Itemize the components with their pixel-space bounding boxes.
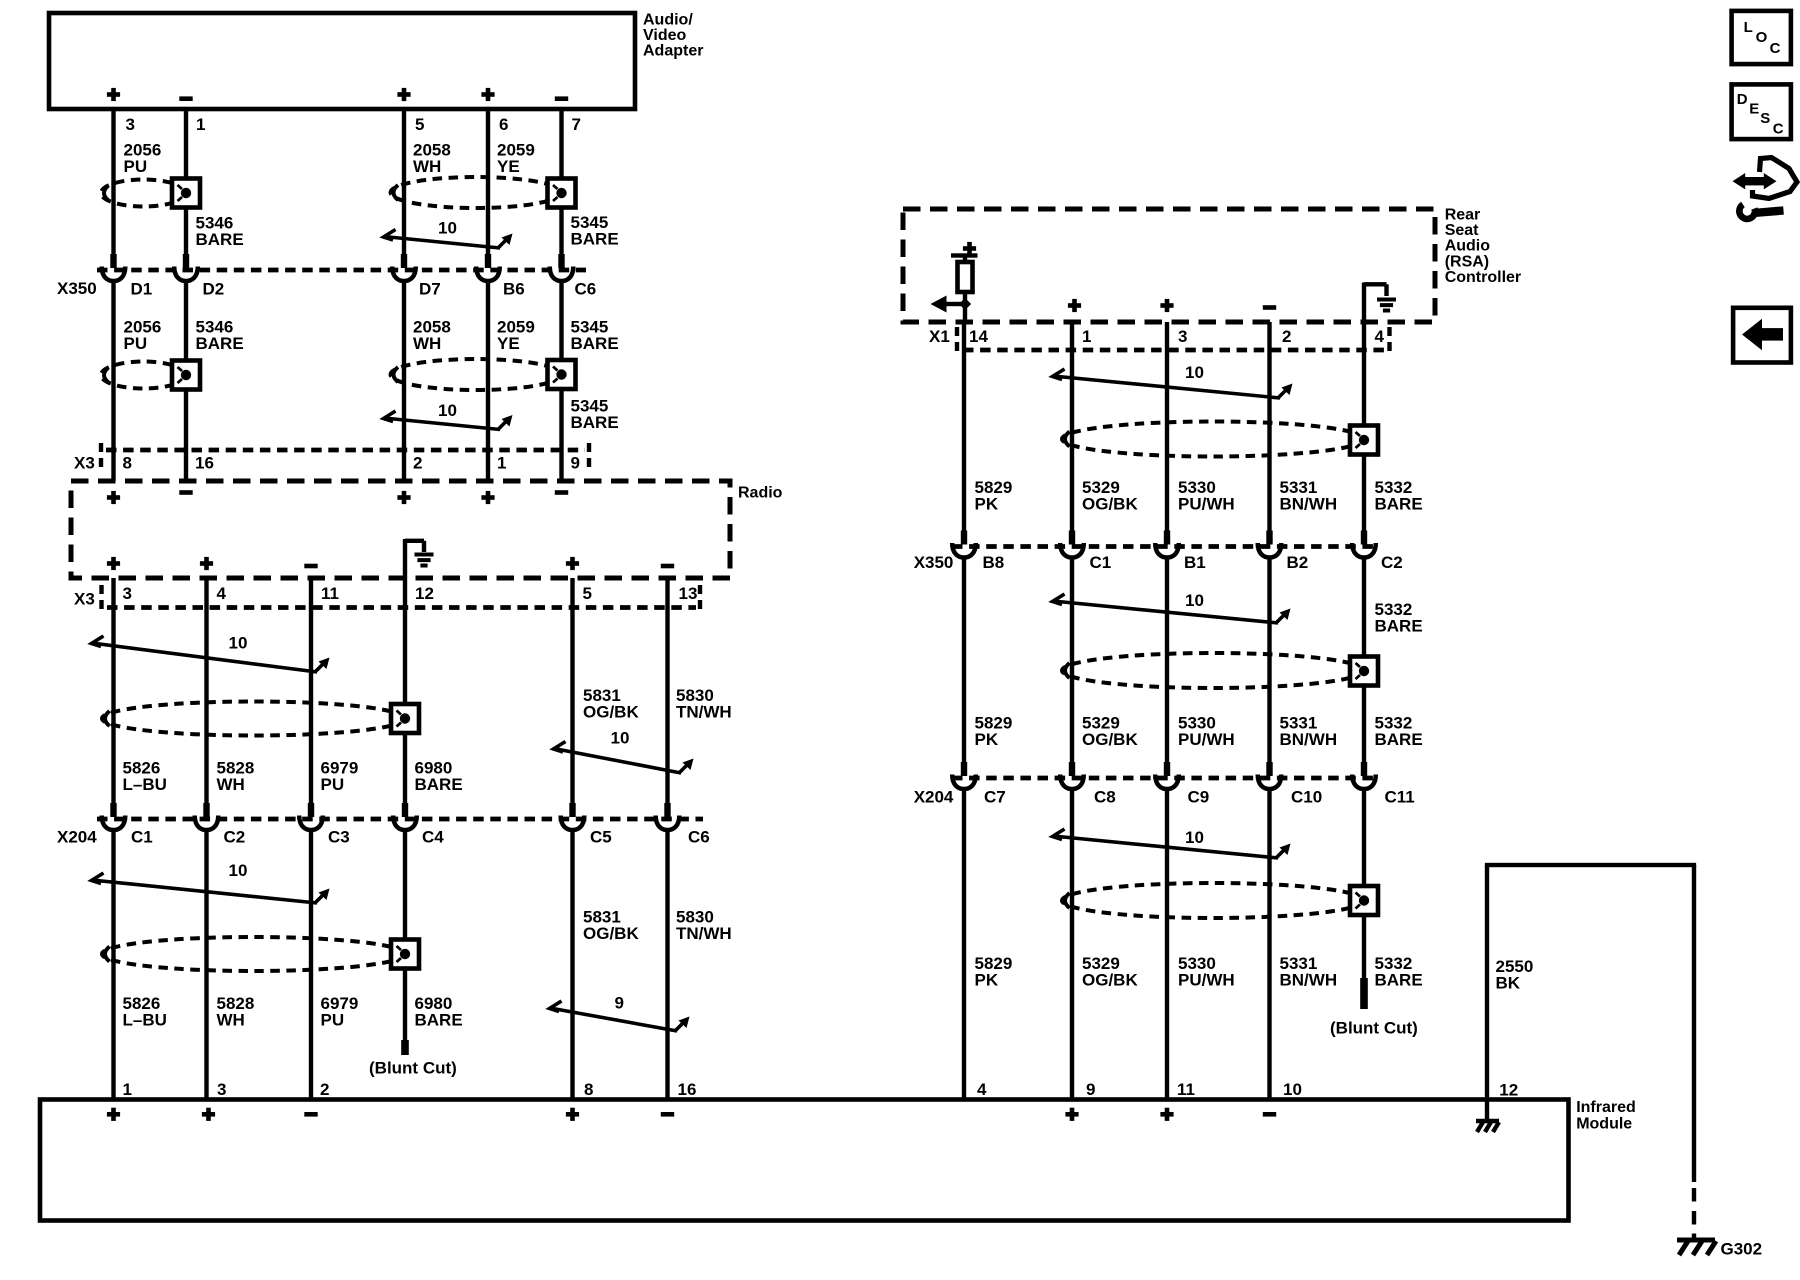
connector X3 left boundary tick bbox=[99, 443, 103, 470]
svg-text:OG/BK: OG/BK bbox=[1082, 730, 1138, 749]
polarity + module pin 3 bbox=[202, 1108, 215, 1121]
wire 5829 PK (X1-14 to X350 B8) bbox=[962, 322, 966, 532]
svg-text:BARE: BARE bbox=[196, 334, 244, 353]
svg-text:PU/WH: PU/WH bbox=[1178, 495, 1235, 514]
svg-text:Controller: Controller bbox=[1445, 269, 1521, 286]
svg-text:(Blunt Cut): (Blunt Cut) bbox=[369, 1059, 457, 1078]
svg-text:PU/WH: PU/WH bbox=[1178, 971, 1235, 990]
wire 5331 BN/WH (X204 C10 to module 10) bbox=[1267, 788, 1271, 1100]
svg-text:B8: B8 bbox=[983, 553, 1005, 572]
svg-text:PK: PK bbox=[975, 730, 999, 749]
svg-text:C2: C2 bbox=[1381, 553, 1403, 572]
svg-text:X204: X204 bbox=[914, 788, 954, 807]
connector cup X350 (left) pin D7 bbox=[392, 254, 416, 281]
wire 2058 WH (X350 D7 to Radio X3-2) bbox=[402, 280, 406, 481]
svg-text:3: 3 bbox=[126, 115, 135, 134]
connector cup X204 (left) pin C4 bbox=[393, 803, 417, 830]
svg-text:2: 2 bbox=[413, 454, 422, 473]
wire 5329 OG/BK (X1-1 to X350 C1) bbox=[1070, 322, 1074, 532]
svg-text:BN/WH: BN/WH bbox=[1280, 495, 1338, 514]
polarity + at A/V pin 5 bbox=[397, 88, 410, 101]
module box: Audio/Video Adapter bbox=[49, 13, 635, 109]
polarity - module pin 2 bbox=[304, 1112, 317, 1117]
wire 5331 BN/WH (X1-2 to X350 B2) bbox=[1267, 322, 1271, 532]
connector cup X350 (right) pin C2 bbox=[1352, 531, 1376, 558]
icon box DESC bbox=[1732, 84, 1791, 139]
svg-text:C: C bbox=[1773, 121, 1784, 138]
svg-text:3: 3 bbox=[217, 1080, 226, 1099]
shield drain symbol on 6980 BARE bbox=[391, 704, 419, 733]
wire 5830 TN/WH (X204 C6 to module 16) bbox=[665, 829, 669, 1100]
twisted-wire arrow '10' bbox=[384, 411, 510, 430]
connector row X1 dashed line bbox=[963, 348, 1385, 353]
svg-text:14: 14 bbox=[969, 327, 988, 346]
svg-text:PU/WH: PU/WH bbox=[1178, 730, 1235, 749]
svg-text:12: 12 bbox=[415, 584, 434, 603]
wire 5329 OG/BK (X350 C1 to X204 C8) bbox=[1070, 557, 1074, 764]
wire 5332 BARE (X350 C2 to X204 C11) bbox=[1362, 557, 1366, 764]
connector cup X204 (right) pin C9 bbox=[1155, 762, 1179, 789]
wire RSA internal (resistor to pin 14) bbox=[963, 292, 967, 322]
svg-text:11: 11 bbox=[1177, 1080, 1195, 1099]
polarity + at A/V pin 3 bbox=[107, 88, 120, 101]
svg-text:TN/WH: TN/WH bbox=[676, 703, 732, 722]
polarity + module pin 11 bbox=[1160, 1108, 1173, 1121]
wire 5831 OG/BK (X204 C5 to module 8) bbox=[570, 829, 574, 1100]
svg-text:8: 8 bbox=[123, 454, 132, 473]
svg-text:BN/WH: BN/WH bbox=[1280, 730, 1338, 749]
polarity - Radio X3-13 bbox=[661, 564, 674, 569]
wire 2550 BK dashed segment to G302 bbox=[1692, 1188, 1696, 1202]
module box: Radio (dashed) bbox=[71, 481, 730, 578]
connector cup X204 (left) pin C3 bbox=[299, 803, 323, 830]
svg-text:BARE: BARE bbox=[1375, 617, 1423, 636]
polarity + at A/V pin 6 bbox=[481, 88, 494, 101]
polarity + RSA pin 1 bbox=[1068, 299, 1081, 312]
wire 5331 BN/WH (X350 B2 to X204 C10) bbox=[1267, 557, 1271, 764]
connector cup X350 (left) pin D1 bbox=[102, 254, 126, 281]
wire 5828 WH (Radio X3-4 to X204 C2) bbox=[204, 578, 208, 804]
svg-text:Radio: Radio bbox=[738, 484, 783, 501]
svg-text:B6: B6 bbox=[503, 280, 525, 299]
polarity + Radio X3-2 bbox=[397, 491, 410, 504]
svg-text:6: 6 bbox=[499, 115, 508, 134]
svg-text:4: 4 bbox=[1375, 327, 1385, 346]
wire 6980 BARE (X204 C4 to blunt cut) bbox=[403, 829, 407, 1040]
connector cup X204 (left) pin C1 bbox=[102, 803, 126, 830]
svg-text:Rear: Rear bbox=[1445, 206, 1481, 223]
svg-text:10: 10 bbox=[1283, 1080, 1302, 1099]
ground symbol inside Radio (pin 12) bbox=[403, 539, 407, 578]
wire 5345 BARE (X350 C6 to Radio X3-9) bbox=[559, 280, 563, 481]
icon box LOC bbox=[1732, 11, 1791, 64]
chassis ground symbol inside module (pin 12) bbox=[1485, 1100, 1489, 1120]
icon arrows and wrench bbox=[1753, 158, 1798, 199]
svg-text:X350: X350 bbox=[57, 279, 97, 298]
shield drain symbol lower on 6980 BARE bbox=[391, 940, 419, 969]
svg-text:O: O bbox=[1756, 29, 1768, 46]
svg-text:10: 10 bbox=[1185, 363, 1204, 382]
svg-text:Module: Module bbox=[1576, 1115, 1632, 1132]
svg-text:L–BU: L–BU bbox=[123, 1011, 167, 1030]
svg-text:C5: C5 bbox=[590, 828, 612, 847]
svg-text:7: 7 bbox=[572, 115, 581, 134]
svg-text:5: 5 bbox=[415, 115, 424, 134]
wire 5345 BARE (A/V 7 to X350 C6) bbox=[559, 109, 563, 255]
svg-text:WH: WH bbox=[217, 1011, 245, 1030]
svg-text:13: 13 bbox=[679, 584, 698, 603]
svg-text:D: D bbox=[1737, 91, 1748, 108]
connector X1 left boundary tick bbox=[955, 327, 959, 351]
twisted-wire arrow '10' bbox=[1053, 369, 1290, 398]
connector row X3 (top) dashed line bbox=[106, 448, 585, 453]
wire 5330 PU/WH (X204 C9 to module 11) bbox=[1165, 788, 1169, 1100]
shield drain symbol #3 on 5332 BARE bbox=[1350, 886, 1378, 915]
twisted trio loop (2058/2059/5345) bbox=[391, 177, 562, 208]
svg-text:L–BU: L–BU bbox=[123, 775, 167, 794]
connector cup X350 (left) pin C6 bbox=[550, 254, 574, 281]
svg-text:BARE: BARE bbox=[415, 1011, 463, 1030]
svg-text:2: 2 bbox=[1282, 327, 1291, 346]
connector row X204 (left) dashed line bbox=[97, 817, 703, 822]
ground symbol inside RSA (pin 4) bbox=[1362, 283, 1366, 323]
wire 5329 OG/BK (X204 C8 to module 9) bbox=[1070, 788, 1074, 1100]
connector cup X350 (left) pin B6 bbox=[476, 254, 500, 281]
svg-text:C2: C2 bbox=[224, 828, 246, 847]
twisted-wire arrow '9' bbox=[550, 1001, 687, 1031]
svg-text:PU: PU bbox=[124, 157, 148, 176]
svg-text:9: 9 bbox=[1086, 1080, 1095, 1099]
svg-text:X3: X3 bbox=[74, 453, 95, 472]
connector cup X204 (right) pin C7 bbox=[952, 762, 976, 789]
polarity + RSA pin 3 bbox=[1160, 299, 1173, 312]
svg-text:PU: PU bbox=[321, 1011, 345, 1030]
svg-text:X350: X350 bbox=[914, 553, 954, 572]
polarity + Radio X3-1 bbox=[481, 491, 494, 504]
polarity + Radio X3-3 bbox=[107, 557, 120, 570]
svg-text:YE: YE bbox=[497, 157, 520, 176]
svg-text:PK: PK bbox=[975, 495, 999, 514]
svg-text:PU: PU bbox=[124, 334, 148, 353]
signal arrow (to left) inside RSA bbox=[943, 302, 965, 306]
svg-text:1: 1 bbox=[497, 454, 506, 473]
svg-text:BARE: BARE bbox=[1375, 971, 1423, 990]
polarity + Radio X3-4 bbox=[200, 557, 213, 570]
twisted-wire arrow '10' bbox=[384, 230, 510, 249]
svg-text:BARE: BARE bbox=[415, 775, 463, 794]
polarity - module pin 16 bbox=[661, 1112, 674, 1117]
connector cup X350 (right) pin C1 bbox=[1060, 531, 1084, 558]
blunt cut stub on 6980 BARE bbox=[401, 1040, 409, 1055]
polarity + module pin 9 bbox=[1065, 1108, 1078, 1121]
wire 5831 OG/BK (Radio X3-5 to X204 C5) bbox=[570, 578, 574, 804]
resistor (pull-up) inside RSA on pin 14 bbox=[963, 242, 976, 255]
polarity - Radio X3-16 bbox=[179, 490, 192, 495]
icon box back-arrow bbox=[1733, 308, 1791, 363]
connector cup X204 (right) pin C10 bbox=[1258, 762, 1282, 789]
connector cup X204 (left) pin C5 bbox=[561, 803, 585, 830]
connector cup X204 (right) pin C11 bbox=[1352, 762, 1376, 789]
shield drain symbol row2 on 5345 BARE bbox=[548, 360, 576, 389]
wire 5830 TN/WH (Radio X3-13 to X204 C6) bbox=[665, 578, 669, 804]
svg-text:12: 12 bbox=[1499, 1081, 1518, 1100]
svg-text:E: E bbox=[1749, 101, 1759, 118]
connector cup X204 (left) pin C2 bbox=[195, 803, 219, 830]
polarity + module pin 8 bbox=[566, 1108, 579, 1121]
twisted-wire arrow '10' bbox=[92, 636, 327, 672]
twisted pair loop row2 (2056/5346) bbox=[101, 362, 186, 389]
twisted pair loop (2056/5346) bbox=[101, 180, 186, 207]
twisted loop right #2 bbox=[1062, 653, 1364, 688]
svg-text:X1: X1 bbox=[929, 327, 950, 346]
svg-text:TN/WH: TN/WH bbox=[676, 924, 732, 943]
wire 2059 YE (A/V 6 to X350 B6) bbox=[486, 109, 490, 255]
svg-text:(Blunt Cut): (Blunt Cut) bbox=[1330, 1019, 1418, 1038]
connector row X350 (right) dashed line bbox=[952, 544, 1378, 549]
svg-text:1: 1 bbox=[196, 115, 205, 134]
polarity + module pin 1 bbox=[107, 1108, 120, 1121]
wire 5826 L-BU (X204 C1 to module 1) bbox=[111, 829, 115, 1100]
svg-text:C6: C6 bbox=[575, 280, 597, 299]
module box: Infrared Module bbox=[40, 1100, 1569, 1221]
wire 5330 PU/WH (X1-3 to X350 B1) bbox=[1165, 322, 1169, 532]
twisted-wire arrow '10' bbox=[1053, 829, 1288, 858]
shield drain symbol row2 on 5346 BARE bbox=[172, 361, 200, 390]
wire 2056 PU (X350 D1 to Radio X3-8) bbox=[111, 280, 115, 481]
svg-text:10: 10 bbox=[438, 401, 457, 420]
svg-text:4: 4 bbox=[977, 1080, 987, 1099]
polarity - Radio X3-11 bbox=[304, 564, 317, 569]
polarity - at A/V pin 1 bbox=[179, 96, 192, 101]
svg-text:9: 9 bbox=[571, 454, 580, 473]
svg-text:5: 5 bbox=[583, 584, 592, 603]
wire 5346 BARE (A/V 1 to X350 D2) bbox=[184, 109, 188, 255]
svg-text:OG/BK: OG/BK bbox=[1082, 495, 1138, 514]
svg-text:WH: WH bbox=[413, 157, 441, 176]
svg-text:9: 9 bbox=[615, 994, 624, 1013]
polarity - at A/V pin 7 bbox=[555, 96, 568, 101]
svg-text:S: S bbox=[1760, 110, 1770, 127]
connector row X3 (bottom) dashed line bbox=[107, 605, 696, 610]
shield drain symbol #2 on 5332 BARE bbox=[1350, 657, 1378, 686]
svg-text:3: 3 bbox=[1178, 327, 1187, 346]
svg-text:BK: BK bbox=[1496, 974, 1521, 993]
connector cup X204 (left) pin C6 bbox=[656, 803, 680, 830]
connector X3 bottom right boundary tick bbox=[698, 585, 702, 612]
wire 2056 PU (A/V 3 to X350 D1) bbox=[111, 109, 115, 255]
svg-text:B1: B1 bbox=[1184, 553, 1206, 572]
svg-text:C1: C1 bbox=[1090, 553, 1112, 572]
polarity - RSA pin 2 bbox=[1263, 305, 1276, 310]
twisted-wire arrow '10' bbox=[554, 742, 691, 774]
wire 2059 YE (X350 B6 to Radio X3-1) bbox=[486, 280, 490, 481]
svg-text:BARE: BARE bbox=[196, 230, 244, 249]
blunt cut stub on 5332 BARE bbox=[1360, 978, 1368, 1009]
polarity + Radio X3-8 bbox=[107, 491, 120, 504]
polarity - Radio X3-9 bbox=[555, 490, 568, 495]
wire 5332 BARE (X1-4 to X350 C2) bbox=[1362, 322, 1366, 532]
svg-text:BARE: BARE bbox=[571, 413, 619, 432]
svg-text:Audio: Audio bbox=[1445, 238, 1491, 255]
svg-text:Seat: Seat bbox=[1445, 222, 1479, 239]
twisted loop (5826/5828/6979/6980) bbox=[102, 702, 405, 736]
svg-text:X3: X3 bbox=[74, 590, 95, 609]
connector X3 bottom left boundary tick bbox=[99, 585, 103, 612]
twisted loop right #1 bbox=[1062, 422, 1364, 457]
connector cup X350 (right) pin B1 bbox=[1155, 531, 1179, 558]
svg-text:B2: B2 bbox=[1287, 553, 1309, 572]
polarity + Radio X3-5 bbox=[566, 557, 579, 570]
svg-text:3: 3 bbox=[123, 584, 132, 603]
wire 5826 L-BU (Radio X3-3 to X204 C1) bbox=[111, 578, 115, 804]
wire 2058 WH (A/V 5 to X350 D7) bbox=[402, 109, 406, 255]
wire 5332 BARE (X204 C11 to blunt cut) bbox=[1362, 788, 1366, 978]
svg-text:D7: D7 bbox=[419, 280, 441, 299]
ground G302 chassis symbol bbox=[1677, 1240, 1716, 1255]
wire 5828 WH (X204 C2 to module 3) bbox=[204, 829, 208, 1100]
svg-text:BARE: BARE bbox=[1375, 730, 1423, 749]
svg-text:10: 10 bbox=[229, 634, 248, 653]
shield drain symbol on 5346 BARE bbox=[172, 179, 200, 208]
svg-text:10: 10 bbox=[438, 219, 457, 238]
svg-text:G302: G302 bbox=[1721, 1240, 1763, 1259]
svg-text:C6: C6 bbox=[688, 828, 710, 847]
wire 5829 PK (X350 B8 to X204 C7) bbox=[962, 557, 966, 764]
svg-text:OG/BK: OG/BK bbox=[583, 924, 639, 943]
twisted loop lower (5826/5828/6979/6980) bbox=[102, 937, 405, 971]
shield drain symbol on 5345 BARE bbox=[548, 179, 576, 208]
wire 6979 PU (X204 C3 to module 2) bbox=[309, 829, 313, 1100]
wire 5346 BARE (X350 D2 to Radio X3-16) bbox=[184, 280, 188, 481]
twisted loop right #3 bbox=[1062, 883, 1364, 918]
svg-text:Video: Video bbox=[643, 27, 687, 44]
svg-text:C9: C9 bbox=[1188, 788, 1210, 807]
svg-text:YE: YE bbox=[497, 334, 520, 353]
svg-text:OG/BK: OG/BK bbox=[583, 703, 639, 722]
svg-text:OG/BK: OG/BK bbox=[1082, 971, 1138, 990]
wire 6979 PU (Radio X3-11 to X204 C3) bbox=[309, 578, 313, 804]
connector X3 right boundary tick bbox=[587, 443, 591, 470]
svg-text:2: 2 bbox=[320, 1080, 329, 1099]
svg-text:C3: C3 bbox=[328, 828, 350, 847]
svg-text:10: 10 bbox=[1185, 828, 1204, 847]
connector row X350 (left) dashed line bbox=[97, 268, 586, 273]
svg-text:10: 10 bbox=[1185, 591, 1204, 610]
connector row X204 (right) dashed line bbox=[952, 776, 1378, 781]
wire 6980 BARE (Radio X3-12 to X204 C4) bbox=[403, 578, 407, 804]
polarity - module pin 10 bbox=[1263, 1112, 1276, 1117]
svg-text:C4: C4 bbox=[422, 828, 444, 847]
svg-text:C8: C8 bbox=[1094, 788, 1116, 807]
svg-text:D1: D1 bbox=[131, 280, 153, 299]
svg-text:8: 8 bbox=[584, 1080, 593, 1099]
svg-text:X204: X204 bbox=[57, 828, 97, 847]
connector X1 right boundary tick bbox=[1387, 327, 1391, 351]
connector cup X350 (right) pin B8 bbox=[952, 531, 976, 558]
connector cup X350 (left) pin D2 bbox=[174, 254, 198, 281]
svg-text:C1: C1 bbox=[131, 828, 153, 847]
svg-text:1: 1 bbox=[1082, 327, 1091, 346]
svg-text:C10: C10 bbox=[1291, 788, 1322, 807]
svg-text:16: 16 bbox=[195, 454, 214, 473]
twisted trio loop row2 (2058/2059/5345) bbox=[391, 359, 562, 390]
wire 5829 PK (X204 C7 to module 4) bbox=[962, 788, 966, 1100]
svg-text:Adapter: Adapter bbox=[643, 42, 703, 59]
svg-text:11: 11 bbox=[321, 584, 339, 603]
svg-text:BARE: BARE bbox=[1375, 495, 1423, 514]
svg-text:16: 16 bbox=[678, 1080, 697, 1099]
svg-text:L: L bbox=[1744, 19, 1753, 36]
connector cup X350 (right) pin B2 bbox=[1258, 531, 1282, 558]
svg-text:C7: C7 bbox=[984, 788, 1006, 807]
svg-text:Audio/: Audio/ bbox=[643, 11, 693, 28]
svg-text:WH: WH bbox=[217, 775, 245, 794]
svg-text:D2: D2 bbox=[203, 280, 225, 299]
module box: Rear Seat Audio (RSA) Controller (dashed) bbox=[903, 209, 1435, 322]
svg-text:1: 1 bbox=[123, 1080, 132, 1099]
svg-text:PK: PK bbox=[975, 971, 999, 990]
svg-text:10: 10 bbox=[229, 861, 248, 880]
svg-text:BARE: BARE bbox=[571, 230, 619, 249]
svg-text:(RSA): (RSA) bbox=[1445, 253, 1489, 270]
svg-text:PU: PU bbox=[321, 775, 345, 794]
twisted-wire arrow '10' bbox=[92, 873, 327, 903]
shield drain symbol #1 on 5332 BARE bbox=[1350, 426, 1378, 455]
svg-text:C: C bbox=[1770, 40, 1781, 57]
wire 5330 PU/WH (X350 B1 to X204 C9) bbox=[1165, 557, 1169, 764]
wire 2550 BK (module 12 up and over to G302) bbox=[1485, 865, 1489, 1100]
svg-text:4: 4 bbox=[217, 584, 227, 603]
svg-text:C11: C11 bbox=[1385, 788, 1415, 807]
twisted-wire arrow '10' bbox=[1053, 594, 1288, 623]
svg-text:WH: WH bbox=[413, 334, 441, 353]
svg-text:BARE: BARE bbox=[571, 334, 619, 353]
connector cup X204 (right) pin C8 bbox=[1060, 762, 1084, 789]
svg-text:10: 10 bbox=[611, 729, 630, 748]
svg-text:BN/WH: BN/WH bbox=[1280, 971, 1338, 990]
svg-text:Infrared: Infrared bbox=[1576, 1099, 1636, 1116]
